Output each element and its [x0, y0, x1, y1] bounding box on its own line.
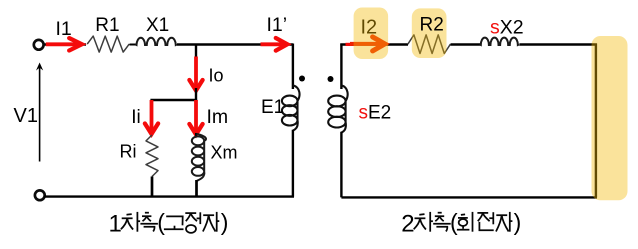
wire: primary bottom wire: [44, 195, 294, 197]
wire: secondary bottom wire: [341, 196, 597, 198]
svg-text:): ): [221, 209, 229, 235]
highlight: I2 yellow box: [354, 8, 389, 60]
wire: sE2 branch vertical top: [340, 44, 342, 90]
resistor R1: [87, 36, 129, 52]
inductor E1 (transformer primary winding): [282, 85, 300, 130]
inductor sX2: [480, 38, 519, 45]
node: transformer primary polarity dot: [299, 76, 305, 82]
arrow: V1 voltage reference arrow (up): [39, 67, 41, 162]
inductor sE2 (transformer secondary winding): [328, 85, 347, 132]
wire: R2 to sX2: [451, 43, 481, 45]
wire: secondary top wire sE2 to R2: [340, 43, 408, 45]
svg-text:(: (: [450, 209, 458, 235]
highlight: rotor end-ring yellow bar: [592, 36, 628, 200]
arrow: current I1 (red, right): [46, 42, 81, 46]
wire: Io node down to shunt split: [195, 88, 197, 101]
terminal: V1 bottom terminal circle: [35, 190, 45, 200]
svg-text:I1: I1: [56, 18, 72, 40]
arrow: current I1' (red, right): [261, 42, 286, 46]
wire: right vertical (rotor bar): [595, 44, 597, 198]
resistor R2: [408, 35, 451, 54]
svg-text:1: 1: [109, 211, 122, 238]
svg-text:Ii: Ii: [131, 107, 141, 128]
svg-text:sE2: sE2: [359, 103, 392, 124]
svg-text:Im: Im: [207, 106, 229, 128]
svg-text:R1: R1: [95, 15, 119, 36]
svg-text:): ): [514, 209, 522, 235]
svg-text:Ri: Ri: [120, 142, 137, 162]
inductor X1: [135, 38, 177, 45]
terminal: V1 top terminal circle: [34, 40, 44, 50]
arrow: current Ii (red, down): [150, 100, 154, 133]
wire: X1 to corner at E1 branch (top wire): [177, 43, 293, 45]
wire: sX2 to right bar: [519, 43, 597, 45]
svg-text:Xm: Xm: [211, 143, 238, 163]
arrow: current Io (red, down): [194, 57, 198, 90]
wire: between R1 and X1: [130, 44, 137, 46]
svg-text:R2: R2: [420, 15, 444, 36]
arrow: current I2 (red, right): [350, 42, 383, 46]
wire: shunt split horizontal bar: [150, 99, 197, 101]
arrow: current Im (red, down): [194, 100, 198, 133]
svg-text:V1: V1: [14, 105, 38, 127]
svg-text:2: 2: [401, 211, 414, 238]
wire: E1 branch vertical top: [292, 44, 294, 90]
svg-text:I1’: I1’: [267, 14, 288, 36]
wire: red stub under I2 arrow start: [346, 43, 354, 46]
wire: sE2 branch vertical bottom: [340, 132, 342, 198]
wire: Ri bottom lead: [151, 177, 154, 197]
wire: top-left terminal to R1 (under I1 arrow): [44, 43, 86, 45]
node: junction of magnetizing branch on top wire: [195, 45, 197, 61]
svg-text:sX2: sX2: [490, 16, 524, 38]
wire: E1 branch vertical bottom: [292, 130, 294, 197]
svg-text:Io: Io: [209, 65, 224, 85]
svg-text:E1: E1: [261, 97, 284, 118]
svg-text:(: (: [157, 209, 165, 235]
resistor Ri: [146, 135, 158, 177]
node: transformer secondary polarity dot: [328, 76, 334, 82]
inductor Xm: [195, 133, 197, 137]
svg-text:X1: X1: [146, 15, 169, 36]
highlight: R2 yellow box: [412, 8, 447, 58]
